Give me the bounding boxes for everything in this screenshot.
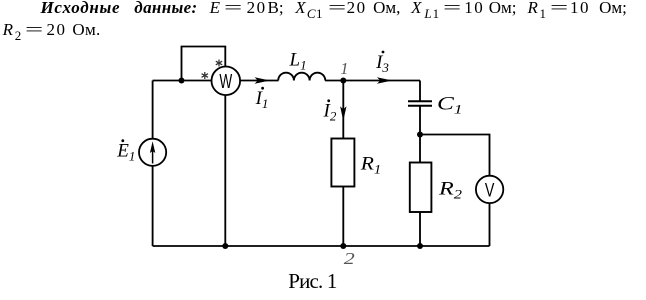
current arrow I1 xyxy=(255,77,270,83)
junction node bottom R2 xyxy=(417,243,423,249)
asterisk mark left of wattmeter xyxy=(202,72,208,79)
svg-text:I1: I1 xyxy=(255,88,269,111)
svg-text:C1: C1 xyxy=(437,94,463,117)
junction node 1 xyxy=(340,78,346,84)
svg-text:W: W xyxy=(219,71,233,93)
junction node bottom wattmeter xyxy=(222,243,228,249)
svg-text:L1: L1 xyxy=(289,50,307,73)
current arrow I3 xyxy=(377,77,392,83)
svg-text:I2: I2 xyxy=(323,101,337,124)
junction node below C1 xyxy=(417,132,423,138)
svg-text:V: V xyxy=(485,179,495,200)
junction node at voltage-coil tap xyxy=(179,78,185,84)
inductor L1 xyxy=(278,73,325,81)
figure caption xyxy=(288,271,336,292)
voltmeter V xyxy=(476,176,503,203)
svg-text:R1: R1 xyxy=(360,154,382,177)
wattmeter W xyxy=(212,67,241,96)
asterisk mark above wattmeter xyxy=(216,60,222,67)
svg-text:R2: R2 xyxy=(438,179,463,202)
wire C1 branch lower segment xyxy=(419,106,421,246)
resistor R1 xyxy=(331,139,354,187)
svg-text:1: 1 xyxy=(340,59,348,78)
source E1 xyxy=(139,139,166,166)
wire top horizontal left of L1 xyxy=(153,80,279,82)
wire bottom horizontal xyxy=(153,245,490,247)
current arrow I2 xyxy=(340,106,346,121)
wire wattmeter voltage-coil loop xyxy=(182,47,226,81)
svg-text:E1: E1 xyxy=(116,141,135,164)
svg-text:I3: I3 xyxy=(375,52,389,75)
wire R1 branch vertical xyxy=(342,81,344,247)
resistor R2 xyxy=(410,163,432,213)
wire top horizontal right of L1 xyxy=(325,80,420,82)
capacitor C1 plates xyxy=(408,101,432,106)
heading text line 2 xyxy=(3,21,13,38)
wire to voltmeter xyxy=(420,135,490,247)
svg-text:2: 2 xyxy=(344,249,355,268)
wire C1 branch upper segment xyxy=(419,81,421,102)
wire left branch xyxy=(152,81,154,247)
junction node 2 bottom xyxy=(340,243,346,249)
heading text line 1 xyxy=(41,0,121,16)
wire wattmeter to bottom wire xyxy=(224,95,226,246)
